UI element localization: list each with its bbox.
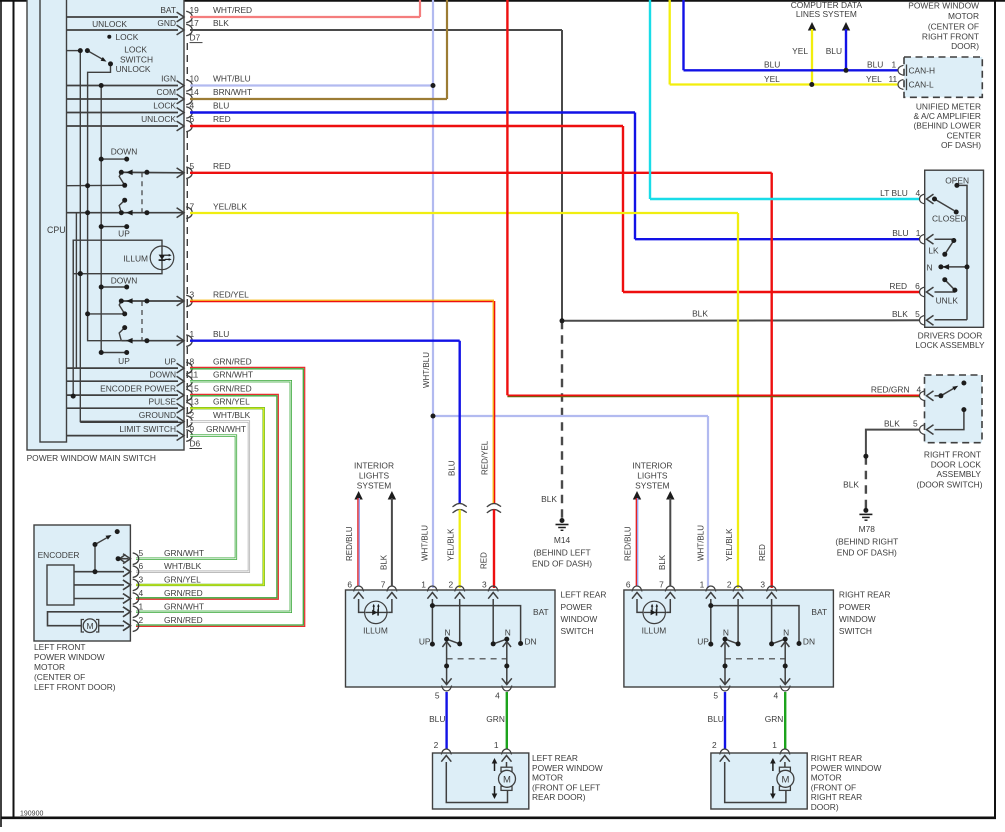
svg-text:7: 7: [381, 580, 386, 590]
svg-text:END OF DASH): END OF DASH): [837, 548, 897, 558]
CPU box: [40, 0, 67, 442]
svg-text:(DOOR SWITCH): (DOOR SWITCH): [916, 479, 982, 489]
connector boundary dash lower: [186, 131, 188, 443]
left rear switch pin 5: [442, 686, 452, 692]
svg-text:BAT: BAT: [533, 607, 549, 617]
svg-text:N: N: [444, 628, 450, 638]
right rear switch illumination LED: [637, 599, 644, 612]
svg-text:BLU: BLU: [213, 101, 229, 111]
svg-text:6: 6: [347, 580, 352, 590]
right rear motor pin 2: [720, 749, 730, 755]
svg-text:INTERIOR: INTERIOR: [632, 461, 672, 471]
svg-text:1: 1: [772, 740, 777, 750]
svg-text:4: 4: [917, 384, 922, 394]
svg-text:M: M: [503, 774, 511, 785]
svg-text:WHT/BLU: WHT/BLU: [422, 352, 431, 388]
svg-text:BLK: BLK: [541, 494, 557, 504]
svg-text:BLK: BLK: [892, 309, 908, 319]
wire RED to left rear switch pin3: [493, 510, 495, 589]
left rear switch battery feed: [431, 599, 433, 644]
svg-text:17: 17: [190, 18, 200, 28]
wire LT BLU: [649, 0, 651, 199]
svg-text:CAN-L: CAN-L: [909, 80, 934, 90]
svg-text:BLU: BLU: [764, 60, 780, 70]
svg-text:GRN/RED: GRN/RED: [164, 588, 203, 598]
svg-text:GRN/WHT: GRN/WHT: [164, 601, 204, 611]
svg-text:N: N: [505, 628, 511, 638]
drivers lock pin 4 LT BLU: [920, 194, 926, 204]
svg-text:POWER WINDOW: POWER WINDOW: [532, 763, 603, 773]
main switch pin 17 GND: [67, 29, 179, 31]
CAN-L pin: [898, 80, 904, 90]
svg-text:(FRONT OF: (FRONT OF: [811, 782, 856, 792]
svg-text:2: 2: [727, 580, 732, 590]
svg-text:WHT/BLU: WHT/BLU: [421, 525, 430, 561]
wire YEL/BLK pin7: [190, 212, 738, 214]
svg-text:POWER WINDOW: POWER WINDOW: [811, 763, 882, 773]
drivers lock pin 6 RED: [920, 287, 926, 297]
wire BLU CAN-H: [682, 0, 684, 70]
encoder pin2 wire: [99, 625, 124, 627]
right front lock pin 5 BLK: [920, 425, 926, 435]
svg-text:1: 1: [139, 601, 144, 611]
wire GROUND pin 2 internal: [80, 421, 184, 423]
svg-text:RED/GRN: RED/GRN: [871, 384, 910, 394]
svg-text:2: 2: [712, 740, 717, 750]
svg-text:4: 4: [495, 691, 500, 701]
svg-text:YEL: YEL: [792, 46, 808, 56]
svg-text:(FRONT OF LEFT: (FRONT OF LEFT: [532, 782, 600, 792]
svg-text:4: 4: [139, 588, 144, 598]
encoder pin 3 GRN/YEL: [123, 580, 130, 590]
encoder pin1 wire: [48, 612, 125, 626]
power window main switch box: [27, 0, 184, 450]
left rear switch pin 2: [455, 586, 465, 592]
svg-text:LK: LK: [928, 246, 939, 256]
svg-text:GND: GND: [157, 18, 176, 28]
right rear switch pin 5: [720, 686, 730, 692]
svg-text:POWER WINDOW: POWER WINDOW: [34, 652, 105, 662]
svg-text:BLU: BLU: [429, 714, 445, 724]
svg-text:6: 6: [626, 580, 631, 590]
svg-text:GRN: GRN: [765, 714, 784, 724]
wire IGN branch vertical: [100, 86, 102, 353]
svg-text:3: 3: [482, 580, 487, 590]
wire RED/BLU right: [635, 498, 637, 586]
right rear switch left pole: [737, 599, 739, 644]
svg-text:MOTOR: MOTOR: [532, 773, 563, 783]
svg-text:UP: UP: [118, 356, 130, 366]
junction BLU CAN-H: [844, 68, 849, 73]
svg-text:POWER WINDOW: POWER WINDOW: [908, 1, 979, 11]
svg-text:1: 1: [916, 228, 921, 238]
svg-text:GRN/RED: GRN/RED: [164, 615, 203, 625]
svg-text:LIGHTS: LIGHTS: [359, 471, 390, 481]
svg-text:5: 5: [435, 691, 440, 701]
junction WHT/BLU upper: [431, 83, 436, 88]
svg-text:GRN/YEL: GRN/YEL: [164, 574, 201, 584]
connector boundary dash upper: [186, 43, 188, 80]
wire WHT/BLU to right rear switch: [707, 416, 709, 588]
page border bottom: [1, 816, 996, 819]
encoder inner wire: [74, 584, 124, 586]
motor wire right: [725, 762, 786, 803]
svg-text:DOOR LOCK: DOOR LOCK: [931, 459, 982, 469]
svg-text:RIGHT REAR: RIGHT REAR: [839, 590, 891, 600]
svg-text:YEL: YEL: [764, 74, 780, 84]
svg-text:10: 10: [190, 74, 200, 84]
CAN-H pin: [898, 65, 904, 75]
encoder inner wire: [74, 571, 124, 573]
svg-text:GRN/WHT: GRN/WHT: [206, 424, 246, 434]
lever pin5: [119, 172, 125, 185]
svg-text:LIMIT SWITCH: LIMIT SWITCH: [119, 424, 176, 434]
main switch pin 9 LIMIT SWITCH: [67, 435, 179, 437]
svg-text:BLK: BLK: [843, 480, 859, 490]
svg-text:DN: DN: [803, 637, 815, 647]
svg-text:WINDOW: WINDOW: [839, 614, 876, 624]
svg-text:(CENTER OF: (CENTER OF: [928, 21, 979, 31]
svg-text:2: 2: [139, 615, 144, 625]
svg-text:1: 1: [421, 580, 426, 590]
svg-text:1: 1: [892, 60, 897, 70]
right front door lock assembly box: [925, 375, 983, 443]
junction YEL CAN-L: [809, 82, 814, 87]
svg-text:GRN/WHT: GRN/WHT: [164, 548, 204, 558]
svg-text:MOTOR: MOTOR: [811, 773, 842, 783]
svg-text:BLU: BLU: [448, 460, 457, 476]
svg-text:YEL/BLK: YEL/BLK: [725, 528, 734, 561]
relay contact UP (lower): [101, 352, 127, 354]
encoder pin 2 GRN/RED: [123, 621, 130, 631]
svg-text:3: 3: [139, 574, 144, 584]
wire RED pin6 UNLOCK: [190, 125, 623, 127]
svg-text:SYSTEM: SYSTEM: [357, 481, 391, 491]
svg-text:YEL/BLK: YEL/BLK: [213, 202, 247, 212]
main switch pin 13 PULSE: [67, 407, 179, 409]
left front power window motor box (encoder): [34, 525, 130, 641]
svg-text:6: 6: [915, 281, 920, 291]
svg-text:UNLOCK: UNLOCK: [116, 64, 151, 74]
svg-text:IGN: IGN: [161, 74, 176, 84]
svg-text:RED: RED: [213, 114, 231, 124]
left rear switch left pole: [459, 599, 461, 644]
svg-text:ASSEMBLY: ASSEMBLY: [936, 469, 981, 479]
svg-text:GRN/WHT: GRN/WHT: [213, 370, 253, 380]
junction WHT/BLU lower: [431, 414, 436, 419]
right front lock pin 4 RED/GRN: [920, 391, 926, 401]
svg-text:(BEHIND LOWER: (BEHIND LOWER: [914, 121, 981, 131]
wire BLK right interior lights: [669, 498, 671, 586]
svg-text:4: 4: [916, 188, 921, 198]
svg-text:11: 11: [190, 370, 199, 380]
svg-text:5: 5: [139, 548, 144, 558]
svg-text:LEFT REAR: LEFT REAR: [561, 590, 607, 600]
svg-text:5: 5: [713, 691, 718, 701]
svg-text:LOCK: LOCK: [124, 44, 147, 54]
svg-text:UP: UP: [697, 637, 709, 647]
wire BLU pin1: [190, 340, 460, 342]
svg-text:RED: RED: [213, 161, 231, 171]
inline connector BLU to YEL/BLK: [453, 504, 467, 507]
svg-text:INTERIOR: INTERIOR: [354, 461, 394, 471]
left rear switch right pole: [492, 599, 494, 644]
contact pin 3: [121, 300, 184, 302]
svg-text:1: 1: [190, 329, 195, 339]
main switch pin 19 BAT: [67, 16, 179, 18]
svg-text:POWER WINDOW MAIN SWITCH: POWER WINDOW MAIN SWITCH: [27, 453, 156, 463]
page border left inner: [13, 0, 15, 819]
main switch pin 6 UNLOCK: [67, 125, 179, 127]
svg-text:7: 7: [659, 580, 664, 590]
wire lock feed vertical: [79, 51, 81, 423]
svg-text:MOTOR: MOTOR: [948, 11, 979, 21]
svg-text:WINDOW: WINDOW: [561, 614, 598, 624]
lever pin7: [119, 200, 125, 213]
wire RED to right rear switch pin3: [771, 173, 773, 588]
svg-text:LOCK: LOCK: [115, 32, 138, 42]
svg-text:M: M: [781, 774, 789, 785]
encoder pin 5 GRN/WHT: [123, 554, 130, 564]
wire GRN/RED main pin to encoder: [136, 367, 305, 626]
left rear switch pin 7: [387, 586, 397, 592]
svg-text:END OF DASH): END OF DASH): [532, 559, 592, 569]
wire GRN switch to motor left: [506, 692, 508, 749]
svg-text:(CENTER OF: (CENTER OF: [34, 672, 85, 682]
drivers lock pin 1 BLU: [920, 234, 926, 244]
svg-text:WHT/RED: WHT/RED: [213, 5, 252, 15]
wire BLK to M78: [866, 430, 920, 455]
encoder pin5 stub: [118, 558, 128, 560]
svg-text:9: 9: [190, 424, 195, 434]
svg-text:5: 5: [190, 161, 195, 171]
wire RED/GRN: [506, 0, 508, 395]
motor direction arrows right: [772, 762, 774, 771]
svg-text:GRN/YEL: GRN/YEL: [213, 397, 250, 407]
svg-text:CAN-H: CAN-H: [909, 66, 936, 76]
svg-text:ILLUM: ILLUM: [123, 253, 148, 263]
svg-text:UP: UP: [118, 229, 130, 239]
right rear switch pin 4: [780, 686, 790, 692]
right rear power window motor box: [711, 753, 807, 809]
svg-text:BRN/WHT: BRN/WHT: [213, 87, 252, 97]
svg-text:LEFT REAR: LEFT REAR: [532, 753, 578, 763]
svg-text:11: 11: [889, 74, 898, 84]
encoder pin 1 GRN/WHT: [123, 607, 130, 617]
lever closed: [935, 199, 955, 211]
svg-text:6: 6: [139, 561, 144, 571]
svg-text:M14: M14: [554, 535, 571, 545]
drivers door lock assembly box: [925, 170, 984, 327]
svg-text:OF DASH): OF DASH): [941, 140, 981, 150]
encoder inner wire: [74, 598, 124, 600]
svg-text:POWER: POWER: [561, 602, 593, 612]
svg-text:DRIVERS DOOR: DRIVERS DOOR: [918, 331, 983, 341]
lever LK: [945, 241, 954, 255]
main switch pin 2 GROUND: [80, 421, 178, 423]
main switch pin 15 ENCODER POWER: [67, 394, 179, 396]
motor M right rear: [779, 767, 790, 771]
svg-text:MOTOR: MOTOR: [34, 662, 65, 672]
svg-text:BLK: BLK: [692, 309, 708, 319]
wire GRN switch to motor right: [784, 692, 786, 749]
motor direction arrows left: [494, 762, 496, 771]
svg-text:N: N: [723, 628, 729, 638]
left rear switch pin 6: [354, 586, 364, 592]
wire RED/BLU left: [357, 498, 359, 586]
svg-text:3: 3: [760, 580, 765, 590]
svg-text:& A/C AMPLIFIER: & A/C AMPLIFIER: [914, 111, 982, 121]
contact pin 5: [121, 171, 184, 174]
left rear switch pin 4: [502, 686, 512, 692]
relay contact UP (upper): [101, 226, 127, 228]
wire YEL/BLK to left rear switch pin2: [459, 510, 461, 589]
encoder pin 4 GRN/RED: [123, 594, 130, 604]
right rear switch pin 2: [733, 586, 743, 592]
svg-text:BAT: BAT: [811, 607, 827, 617]
wire BLU to drivers door lock pin1: [635, 238, 920, 240]
svg-text:ENCODER POWER: ENCODER POWER: [100, 384, 176, 394]
svg-text:2: 2: [190, 410, 195, 420]
svg-text:GROUND: GROUND: [139, 410, 176, 420]
svg-text:RED/YEL: RED/YEL: [213, 290, 249, 300]
wire RED pin5: [190, 172, 772, 174]
svg-text:8: 8: [190, 357, 195, 367]
svg-text:YEL/BLK: YEL/BLK: [447, 528, 456, 561]
svg-text:CLOSED: CLOSED: [932, 214, 966, 224]
svg-text:RED/YEL: RED/YEL: [481, 440, 490, 475]
svg-text:14: 14: [190, 87, 200, 97]
svg-text:WHT/BLU: WHT/BLU: [697, 525, 706, 561]
svg-text:4: 4: [190, 101, 195, 111]
svg-text:2: 2: [434, 740, 439, 750]
svg-text:190900: 190900: [20, 811, 43, 818]
svg-text:LEFT FRONT: LEFT FRONT: [34, 642, 86, 652]
svg-text:PULSE: PULSE: [149, 397, 177, 407]
page border left outer: [0, 0, 2, 827]
svg-text:DOWN: DOWN: [149, 370, 176, 380]
svg-text:REAR DOOR): REAR DOOR): [532, 792, 586, 802]
svg-text:BLU: BLU: [826, 46, 842, 56]
svg-text:5: 5: [915, 309, 920, 319]
encoder inner block: [47, 565, 74, 605]
LED ILLUM main switch: [150, 246, 174, 270]
svg-text:LOCK ASSEMBLY: LOCK ASSEMBLY: [915, 340, 985, 350]
right rear switch pin 6: [632, 586, 642, 592]
svg-text:3: 3: [190, 290, 195, 300]
wire BLU switch to motor right: [724, 692, 726, 749]
svg-text:DOOR): DOOR): [951, 41, 979, 51]
main switch pin 4 LOCK: [67, 112, 179, 114]
svg-text:2: 2: [449, 580, 454, 590]
internal bus drivers lock: [957, 185, 967, 319]
mech link dash lower: [141, 301, 143, 341]
encoder pin 6 WHT/BLK: [123, 567, 130, 577]
svg-text:CPU: CPU: [47, 225, 66, 235]
unified meter and a/c amplifier box: [904, 57, 982, 97]
main switch pin 11 DOWN: [67, 380, 179, 382]
mech link dash upper: [141, 172, 143, 212]
svg-text:M78: M78: [859, 524, 876, 534]
svg-text:DOWN: DOWN: [111, 276, 138, 286]
svg-text:BLK: BLK: [213, 18, 229, 28]
wire WHT/BLK main pin to encoder: [136, 422, 249, 572]
wire GRN/RED main pin to encoder: [136, 394, 278, 599]
svg-text:ILLUM: ILLUM: [363, 626, 388, 636]
wire BLK pin17 GND: [190, 29, 562, 31]
left rear switch pin 1: [427, 586, 437, 592]
svg-text:SYSTEM: SYSTEM: [635, 481, 669, 491]
wire BLU stub to CAN-H: [845, 29, 847, 70]
right rear switch pin 7: [665, 586, 675, 592]
svg-text:1: 1: [494, 740, 499, 750]
svg-text:WHT/BLK: WHT/BLK: [164, 561, 202, 571]
svg-text:BLU: BLU: [892, 228, 908, 238]
svg-text:(BEHIND LEFT: (BEHIND LEFT: [533, 548, 590, 558]
svg-text:UNIFIED METER: UNIFIED METER: [916, 101, 981, 111]
encoder switch lever: [95, 537, 109, 545]
inline connector RED/YEL to RED: [487, 504, 501, 507]
wire WHT/BLU vertical: [432, 0, 434, 588]
right rear switch right pole: [771, 599, 773, 644]
page border top: [0, 0, 1005, 2]
illumination LED circuit main switch: [73, 240, 162, 274]
main switch pin 8 UP: [67, 367, 179, 369]
junction BLK: [560, 318, 565, 323]
wire WHT/BLU pin10: [190, 84, 433, 86]
svg-text:1: 1: [700, 580, 705, 590]
svg-text:LIGHTS: LIGHTS: [637, 471, 668, 481]
svg-text:LT BLU: LT BLU: [880, 188, 908, 198]
right rear switch pin 1: [706, 586, 716, 592]
left rear power window switch box: [346, 590, 556, 687]
svg-text:BAT: BAT: [160, 5, 176, 15]
svg-text:UP: UP: [164, 357, 176, 367]
svg-text:DOOR): DOOR): [811, 802, 839, 812]
lever pin1: [119, 328, 125, 341]
svg-text:RED: RED: [889, 281, 907, 291]
svg-text:BLK: BLK: [884, 418, 900, 428]
svg-text:ENCODER: ENCODER: [38, 550, 80, 560]
svg-text:LINES SYSTEM: LINES SYSTEM: [796, 9, 857, 19]
svg-text:BLK: BLK: [658, 554, 667, 570]
svg-text:RIGHT REAR: RIGHT REAR: [811, 753, 863, 763]
right rear power window switch box: [624, 590, 834, 687]
svg-text:19: 19: [190, 5, 200, 15]
wire BLK to drivers door lock pin5: [562, 319, 920, 322]
right rear switch pin 3: [767, 586, 777, 592]
left rear motor pin 1: [502, 749, 512, 755]
svg-text:CENTER: CENTER: [947, 130, 981, 140]
svg-text:UNLOCK: UNLOCK: [92, 19, 127, 29]
wire RED to drivers door lock pin6: [623, 291, 920, 293]
svg-text:WHT/BLK: WHT/BLK: [213, 410, 251, 420]
drivers lock pin 5 BLK: [920, 315, 926, 325]
svg-text:7: 7: [190, 202, 195, 212]
svg-text:(BEHIND RIGHT: (BEHIND RIGHT: [835, 537, 898, 547]
svg-text:DOWN: DOWN: [111, 147, 138, 157]
wire YEL stub to CAN-L: [811, 29, 813, 85]
svg-text:RED/BLU: RED/BLU: [345, 526, 354, 561]
svg-text:5: 5: [913, 418, 918, 428]
wire BLK dashed to M78: [865, 456, 867, 508]
svg-text:D7: D7: [190, 33, 201, 43]
svg-text:RIGHT FRONT: RIGHT FRONT: [924, 450, 981, 460]
svg-text:COM: COM: [156, 87, 176, 97]
wire BLK dashed to ground M14: [561, 321, 563, 519]
wire lock lever output: [88, 64, 122, 341]
encoder motor M: [81, 620, 98, 633]
